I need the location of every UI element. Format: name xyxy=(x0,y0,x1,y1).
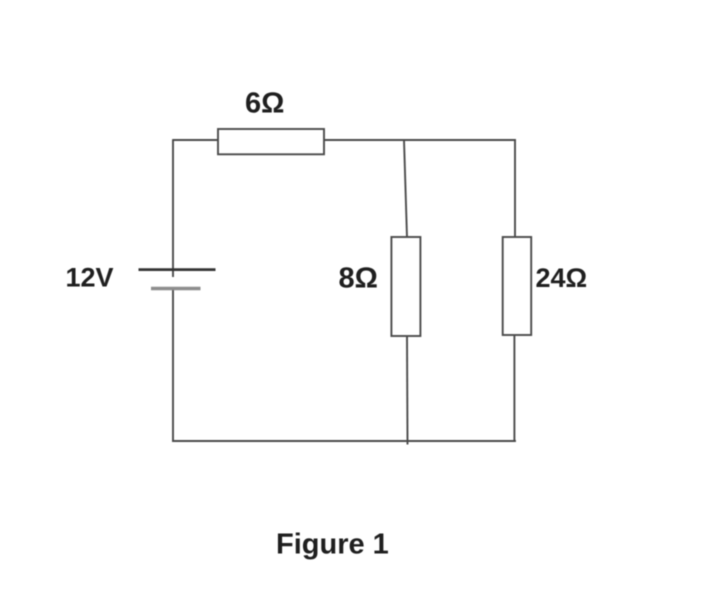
svg-text:Figure 1: Figure 1 xyxy=(276,529,389,561)
resistor R2 8 ohm (vertical box) xyxy=(391,237,420,336)
wire: top from battery node to 6-ohm resistor xyxy=(173,139,219,141)
wire: bottom from left corner to right corner xyxy=(172,440,516,442)
wire: left vertical from battery negative plate down to bottom corner xyxy=(172,289,174,442)
label 24 ohm value xyxy=(536,263,588,293)
caption Figure 1 xyxy=(276,529,389,561)
resistor R1 6 ohm (horizontal box) xyxy=(218,129,324,154)
wire: top from 6-ohm resistor to right corner xyxy=(324,139,516,141)
wire: right vertical from 24-ohm resistor down to bottom corner xyxy=(513,335,515,442)
resistor R3 24 ohm (vertical box) xyxy=(503,237,532,335)
wire: middle branch from top node down to 8-ohm resistor xyxy=(404,140,407,238)
svg-text:12V: 12V xyxy=(66,263,114,293)
battery V1 negative plate (short) xyxy=(151,287,201,291)
label 6 ohm value xyxy=(245,88,284,120)
svg-text:8Ω: 8Ω xyxy=(339,263,378,295)
label 8 ohm value xyxy=(339,263,378,295)
wire: middle branch from 8-ohm resistor down to bottom node xyxy=(406,335,409,445)
wire: left vertical from top corner down to battery positive plate xyxy=(172,139,174,277)
label 12V value xyxy=(66,263,114,293)
wire: right vertical from top corner down to 24-ohm resistor xyxy=(514,139,516,237)
battery V1 positive plate (long) xyxy=(139,268,216,271)
svg-text:6Ω: 6Ω xyxy=(245,88,284,120)
svg-text:24Ω: 24Ω xyxy=(536,263,588,293)
